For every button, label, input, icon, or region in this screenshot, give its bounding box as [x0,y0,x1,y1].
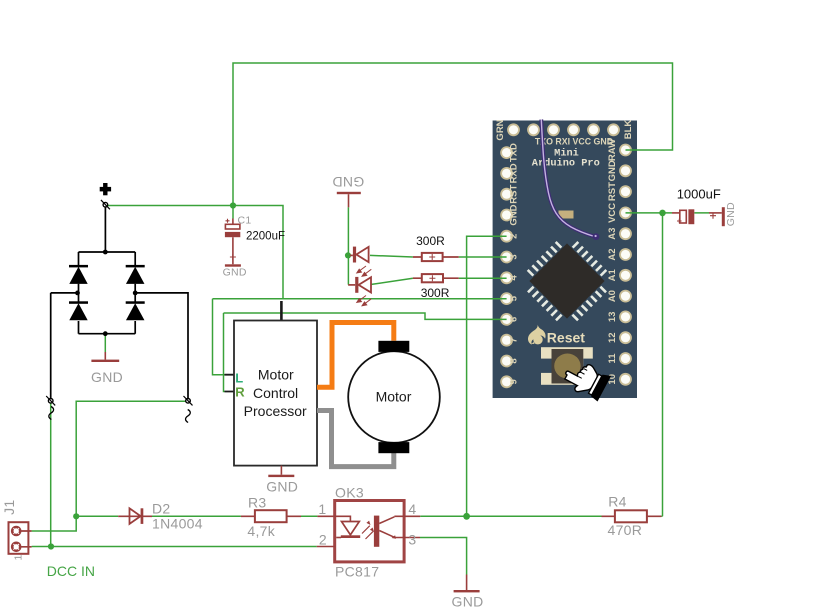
svg-text:GND: GND [725,202,737,226]
svg-text:5: 5 [509,295,520,301]
svg-text:GRN: GRN [495,119,506,140]
svg-text:GND: GND [266,478,298,494]
svg-text:A0: A0 [607,290,618,302]
svg-text:RST: RST [509,185,520,204]
svg-text:GND: GND [332,174,364,190]
svg-text:Motor: Motor [258,367,294,383]
svg-text:PC817: PC817 [335,563,379,579]
svg-text:GND: GND [452,593,484,609]
svg-text:Reset: Reset [547,329,585,345]
svg-text:A3: A3 [607,228,618,240]
svg-text:BLK: BLK [623,120,634,140]
svg-text:470R: 470R [608,522,643,538]
svg-text:GND: GND [509,204,520,225]
svg-text:R3: R3 [248,495,267,511]
svg-text:12: 12 [607,332,618,343]
svg-text:TXO RXI VCC GND: TXO RXI VCC GND [535,137,613,147]
svg-text:4,7k: 4,7k [247,523,275,539]
svg-text:Processor: Processor [244,403,307,419]
svg-text:3: 3 [408,531,416,547]
svg-text:300R: 300R [421,286,450,300]
svg-text:Control: Control [253,385,298,401]
svg-text:7: 7 [509,338,520,343]
svg-text:R4: R4 [608,494,627,510]
svg-text:4: 4 [408,501,416,517]
svg-text:1: 1 [13,554,25,560]
svg-text:2: 2 [319,531,327,547]
svg-text:A2: A2 [607,248,618,260]
svg-text:1000uF: 1000uF [677,186,721,201]
svg-text:4: 4 [509,274,520,280]
svg-text:D2: D2 [152,501,171,517]
svg-text:1N4004: 1N4004 [152,515,203,531]
svg-text:R: R [235,384,245,399]
svg-text:2200uF: 2200uF [246,230,285,242]
svg-text:J1: J1 [1,500,17,515]
svg-text:8: 8 [509,358,520,363]
svg-text:2: 2 [509,234,520,239]
svg-text:RXD: RXD [509,163,520,183]
svg-text:OK3: OK3 [335,484,364,500]
svg-text:VCC: VCC [607,203,618,223]
svg-text:3: 3 [509,254,520,259]
svg-text:11: 11 [607,353,618,364]
svg-text:GND: GND [91,369,123,385]
svg-text:GND: GND [607,160,618,181]
svg-text:RST: RST [607,182,618,201]
svg-text:13: 13 [607,312,618,323]
svg-text:C1: C1 [238,214,252,226]
svg-text:DCC IN: DCC IN [47,563,95,579]
svg-text:6: 6 [509,317,520,322]
svg-text:GND: GND [223,267,247,279]
svg-text:L: L [235,370,243,385]
svg-text:Motor: Motor [376,388,412,404]
svg-text:9: 9 [509,379,520,384]
svg-text:300R: 300R [416,234,445,248]
svg-text:A1: A1 [607,269,618,282]
svg-text:TXD: TXD [509,143,520,162]
svg-text:1: 1 [318,501,326,517]
svg-text:RAW: RAW [607,139,618,161]
